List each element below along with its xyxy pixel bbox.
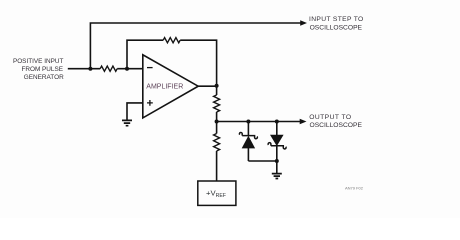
svg-text:OSCILLOSCOPE: OSCILLOSCOPE	[310, 122, 363, 129]
svg-text:OSCILLOSCOPE: OSCILLOSCOPE	[310, 24, 363, 31]
wire: R1 to op-amp inverting input	[117, 68, 143, 70]
diode D2 triangle (pointing down)	[271, 135, 283, 145]
node: output junction dot	[215, 84, 219, 88]
wire: tap up to input-step arrow	[90, 23, 301, 69]
svg-text:OUTPUT TO: OUTPUT TO	[309, 114, 351, 121]
node: D2 top junction dot	[275, 120, 279, 124]
svg-text:AN79 F02: AN79 F02	[345, 186, 364, 191]
diode D1 triangle (pointing up)	[243, 137, 255, 148]
wire: input lead from generator	[68, 68, 100, 70]
svg-text:AMPLIFIER: AMPLIFIER	[146, 83, 183, 90]
wire: bottom rail joining D1 and D2	[248, 160, 276, 162]
arrowhead: input step to oscilloscope	[300, 20, 307, 25]
svg-text:GENERATOR: GENERATOR	[24, 74, 64, 81]
node: input junction dot	[88, 67, 92, 71]
pin mark: non-inverting (+) input	[147, 100, 153, 106]
resistor R2 (feedback)	[163, 38, 180, 43]
node: inverting input junction dot	[125, 67, 129, 71]
resistor R4 (lower divider)	[214, 134, 220, 151]
wire: D2 cathode-top lead from output line	[276, 122, 278, 136]
label: OUTPUT TO OSCILLOSCOPE	[309, 114, 362, 129]
resistor R1 (input series)	[100, 66, 117, 71]
wire: feedback left vertical	[127, 40, 163, 68]
node: D1 top junction dot	[246, 120, 250, 124]
svg-text:POSITIVE INPUT: POSITIVE INPUT	[13, 58, 64, 65]
label: INPUT STEP TO OSCILLOSCOPE	[309, 16, 364, 32]
wire: output node down to R3	[216, 86, 218, 95]
diode D1 schottky cathode bar with curls	[239, 132, 257, 138]
wire: R3 to lower node	[216, 112, 218, 134]
svg-text:INPUT STEP TO: INPUT STEP TO	[309, 16, 364, 23]
label: POSITIVE INPUT FROM PULSE GENERATOR	[13, 58, 64, 81]
wire: non-inverting input to ground	[127, 103, 143, 120]
arrowhead: output to oscilloscope	[300, 119, 307, 124]
wire: R4 down to VREF box	[216, 151, 218, 181]
wire: feedback right side down to output node	[180, 40, 216, 84]
wire: down to ground symbol	[276, 161, 278, 173]
node: divider junction dot	[215, 120, 219, 124]
resistor R3 (upper divider)	[214, 95, 220, 112]
ground: op-amp + input	[122, 120, 132, 125]
voltage source box +VREF	[198, 181, 236, 205]
diode D2 schottky cathode bar with curls	[268, 143, 286, 149]
diode D1 (schottky, anode down / cathode up) lead from output line	[247, 122, 249, 136]
pin mark: inverting (-) input	[147, 67, 153, 69]
label: +VREF value	[206, 189, 226, 200]
svg-text:FROM PULSE: FROM PULSE	[21, 66, 63, 73]
op-amp U1 triangle	[143, 55, 198, 118]
node: ground junction dot	[275, 159, 279, 163]
wire: op-amp output to node	[198, 85, 217, 87]
svg-text:REF: REF	[216, 193, 226, 199]
wire: D2 down to ground node	[276, 146, 278, 161]
wire: D1 anode down to bottom rail	[247, 148, 249, 161]
ground: diode clamp return	[272, 174, 282, 179]
wire: output to oscilloscope run	[217, 121, 301, 123]
